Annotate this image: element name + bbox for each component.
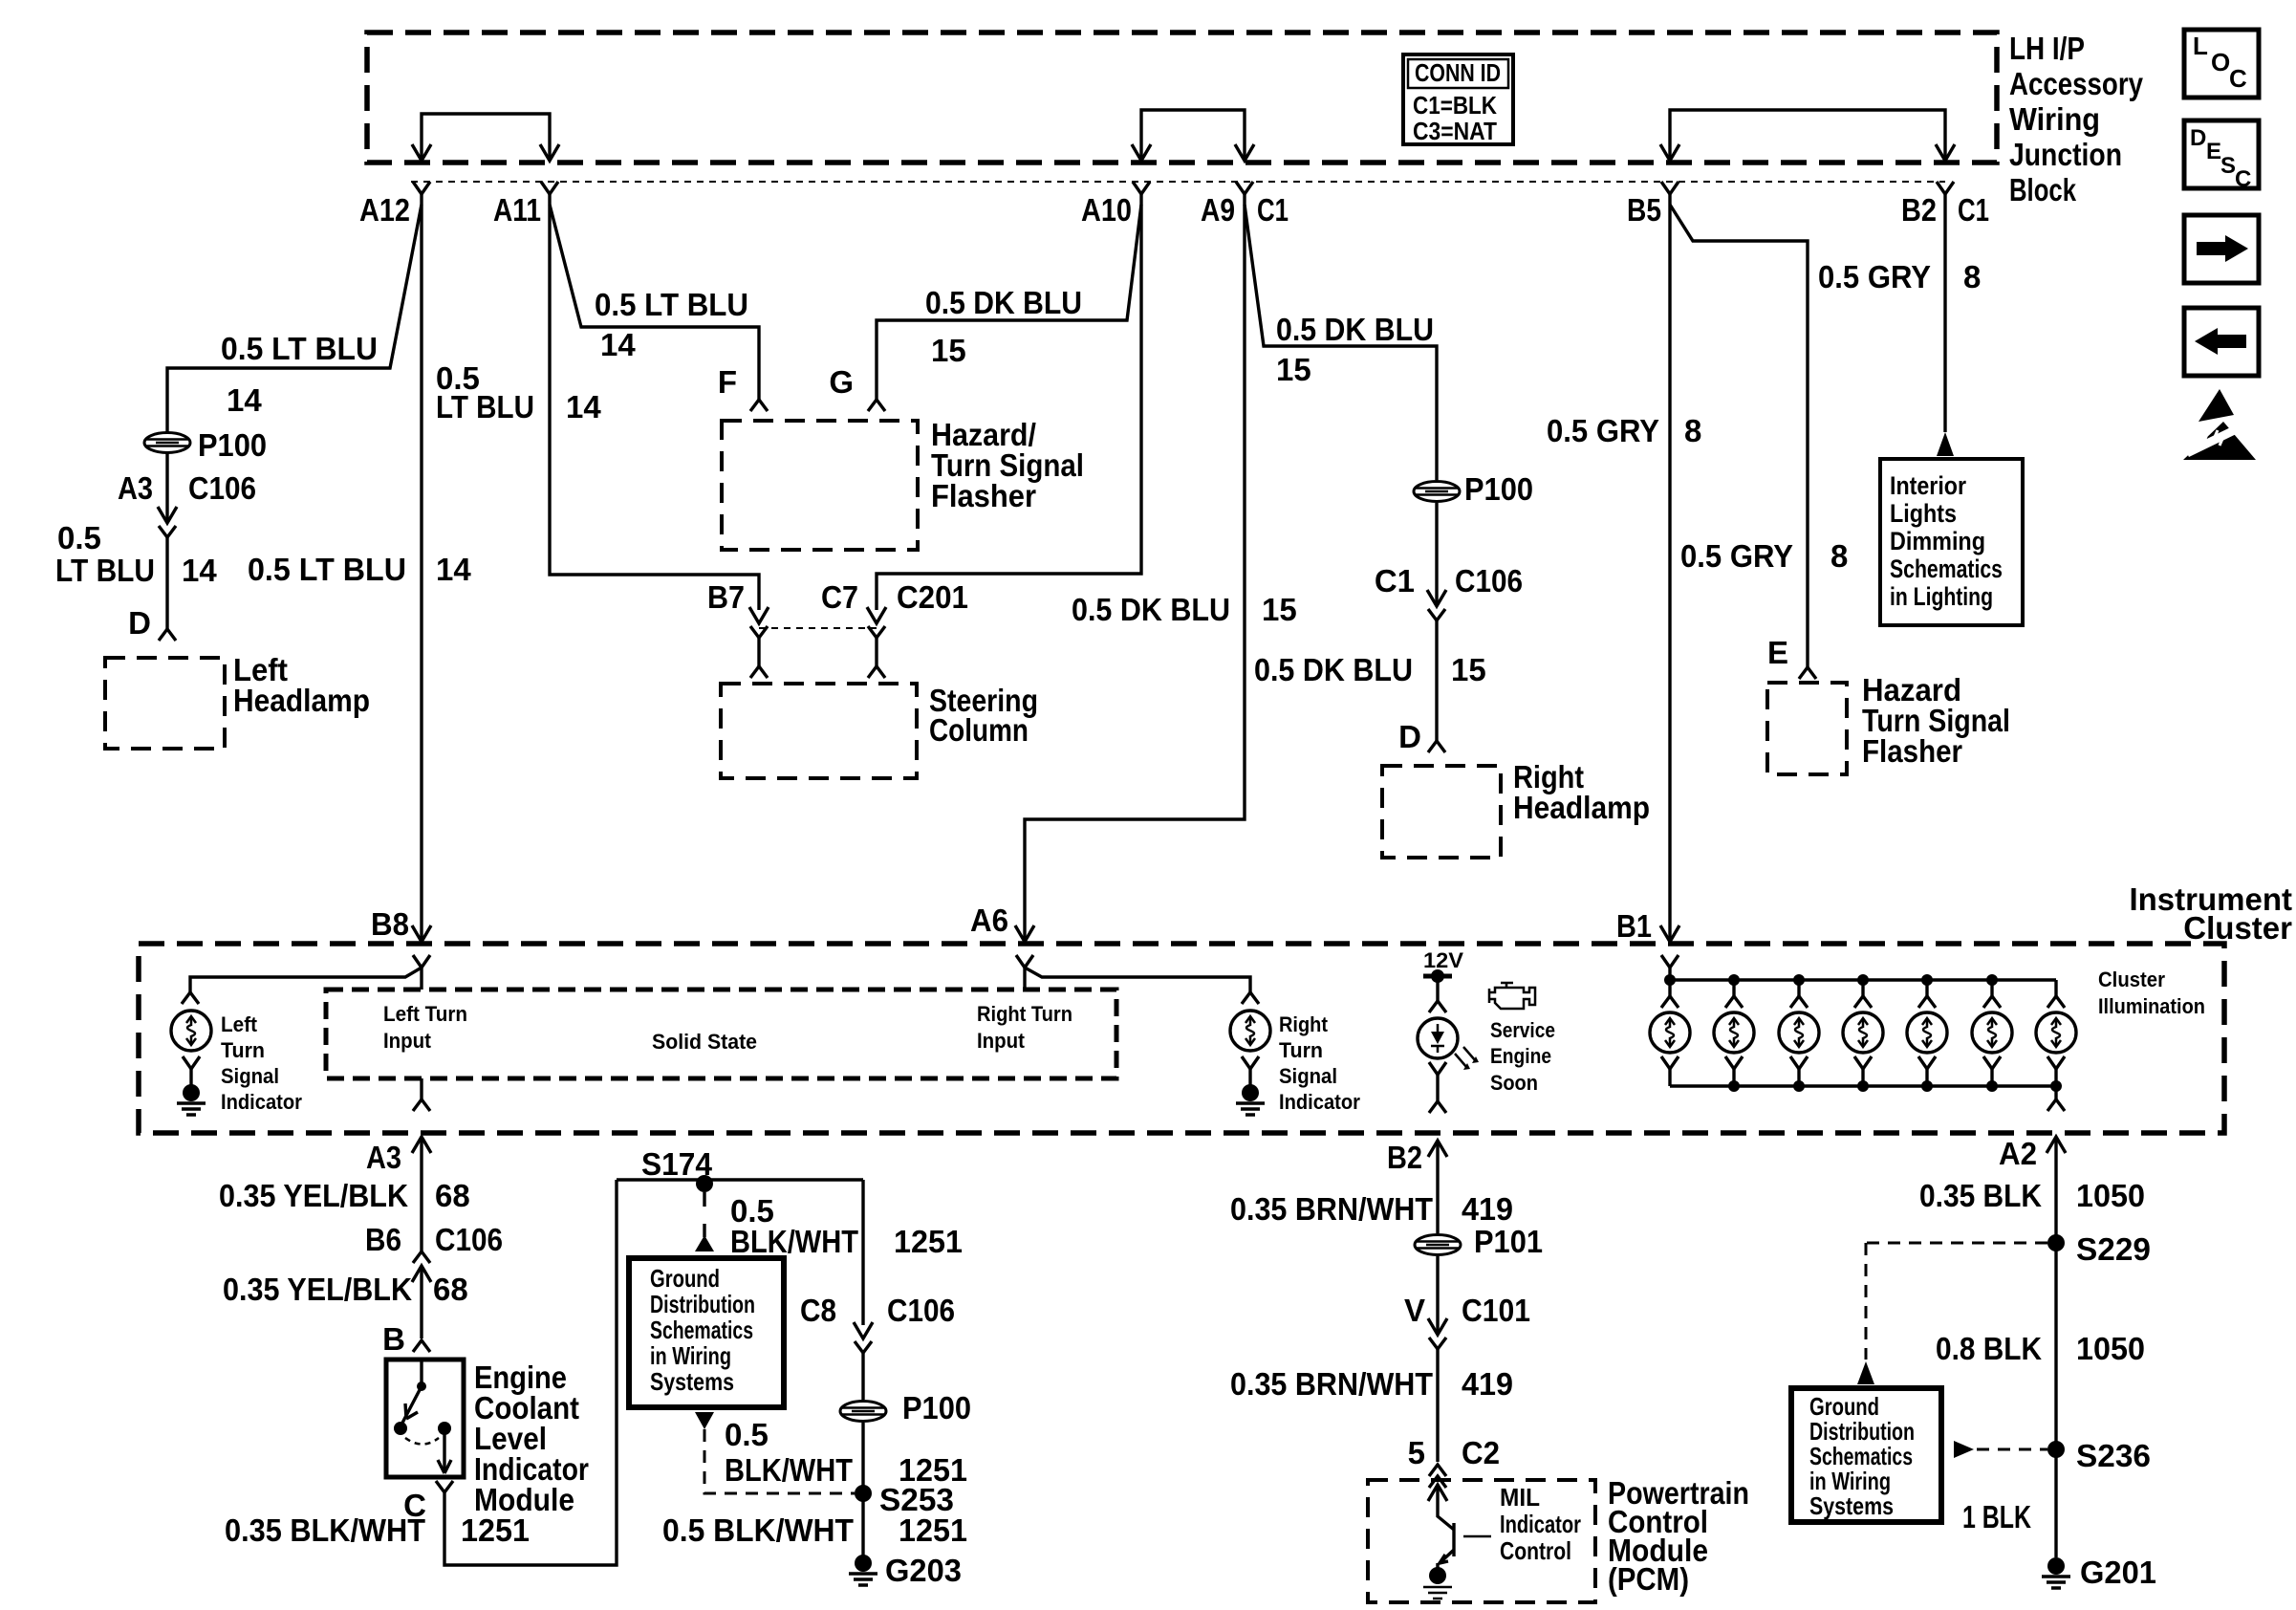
svg-text:C2: C2 (1462, 1435, 1500, 1470)
svg-text:1251: 1251 (894, 1224, 963, 1259)
svg-text:0.35 BRN/WHT: 0.35 BRN/WHT (1230, 1191, 1433, 1227)
svg-text:in Lighting: in Lighting (1890, 582, 1993, 611)
svg-text:O: O (2211, 48, 2230, 76)
svg-text:1 BLK: 1 BLK (1962, 1499, 2031, 1534)
svg-text:Dimming: Dimming (1890, 527, 1985, 555)
svg-text:C1: C1 (1257, 192, 1289, 228)
svg-text:14: 14 (566, 389, 601, 424)
svg-text:L: L (2193, 32, 2208, 60)
svg-text:A9: A9 (1201, 192, 1235, 228)
svg-text:Input: Input (977, 1029, 1026, 1053)
svg-text:Wiring: Wiring (2009, 101, 2100, 137)
svg-text:1251: 1251 (899, 1512, 967, 1548)
svg-text:Illumination: Illumination (2098, 994, 2205, 1018)
svg-text:8: 8 (1963, 259, 1981, 294)
svg-text:0.5 LT BLU: 0.5 LT BLU (595, 287, 748, 322)
svg-text:Left Turn: Left Turn (383, 1002, 467, 1026)
svg-text:E: E (1767, 635, 1788, 670)
svg-text:Right: Right (1279, 1012, 1329, 1036)
svg-text:Turn: Turn (221, 1038, 265, 1062)
svg-text:Right Turn: Right Turn (977, 1002, 1072, 1026)
svg-text:8: 8 (1830, 538, 1848, 574)
svg-text:C7: C7 (821, 579, 858, 615)
svg-text:Solid State: Solid State (652, 1030, 757, 1054)
svg-text:0.5 LT BLU: 0.5 LT BLU (221, 331, 378, 366)
svg-text:0.5 DK BLU: 0.5 DK BLU (1254, 652, 1413, 687)
svg-text:C: C (2235, 166, 2251, 192)
svg-text:1050: 1050 (2076, 1331, 2145, 1366)
svg-text:0.35 YEL/BLK: 0.35 YEL/BLK (223, 1272, 412, 1307)
svg-text:G: G (829, 364, 854, 400)
svg-text:15: 15 (1262, 592, 1297, 627)
svg-text:Indicator: Indicator (1500, 1510, 1581, 1538)
svg-text:BLK/WHT: BLK/WHT (730, 1224, 858, 1259)
svg-text:68: 68 (435, 1178, 470, 1213)
svg-text:P101: P101 (1474, 1224, 1543, 1259)
svg-text:Schematics: Schematics (650, 1316, 753, 1344)
svg-text:LT BLU: LT BLU (55, 553, 155, 588)
svg-text:0.35 BLK: 0.35 BLK (1919, 1178, 2042, 1213)
svg-text:1251: 1251 (461, 1512, 530, 1548)
svg-text:419: 419 (1462, 1366, 1513, 1402)
svg-text:C8: C8 (800, 1293, 836, 1328)
svg-text:0.5 DK BLU: 0.5 DK BLU (1276, 312, 1434, 347)
svg-text:Systems: Systems (650, 1367, 734, 1396)
svg-text:S229: S229 (2076, 1231, 2151, 1267)
svg-text:0.5: 0.5 (725, 1417, 769, 1452)
svg-text:C3=NAT: C3=NAT (1413, 117, 1497, 145)
svg-text:14: 14 (182, 553, 217, 588)
svg-text:Systems: Systems (1809, 1491, 1894, 1520)
svg-text:Flasher: Flasher (931, 478, 1036, 513)
svg-text:0.35 YEL/BLK: 0.35 YEL/BLK (219, 1178, 408, 1213)
svg-text:14: 14 (600, 327, 636, 362)
svg-text:Left: Left (221, 1012, 258, 1036)
svg-text:F: F (718, 364, 737, 400)
svg-text:P100: P100 (1464, 471, 1533, 507)
svg-text:Soon: Soon (1490, 1071, 1538, 1095)
svg-text:MIL: MIL (1500, 1483, 1540, 1512)
svg-text:D: D (128, 605, 151, 641)
svg-text:Engine: Engine (1490, 1044, 1551, 1068)
svg-text:Interior: Interior (1890, 471, 1966, 500)
svg-text:Junction: Junction (2009, 137, 2122, 172)
svg-text:B1: B1 (1616, 908, 1652, 944)
svg-text:Headlamp: Headlamp (233, 683, 370, 718)
svg-text:0.8 BLK: 0.8 BLK (1936, 1331, 2042, 1366)
svg-text:B8: B8 (371, 906, 409, 942)
svg-text:BLK/WHT: BLK/WHT (725, 1452, 853, 1488)
svg-text:C1: C1 (1958, 192, 1989, 228)
svg-text:B2: B2 (1387, 1140, 1422, 1175)
svg-text:0.5 GRY: 0.5 GRY (1818, 259, 1931, 294)
svg-text:15: 15 (1451, 652, 1486, 687)
svg-text:Schematics: Schematics (1890, 555, 2003, 583)
svg-text:P100: P100 (198, 427, 267, 463)
svg-text:G203: G203 (885, 1553, 962, 1588)
svg-text:C: C (2229, 64, 2247, 93)
svg-text:Control: Control (1500, 1536, 1571, 1565)
svg-text:0.5 DK BLU: 0.5 DK BLU (925, 285, 1082, 320)
svg-text:B: B (382, 1321, 405, 1357)
svg-text:C101: C101 (1462, 1293, 1530, 1328)
svg-text:Accessory: Accessory (2009, 66, 2144, 101)
svg-text:1050: 1050 (2076, 1178, 2145, 1213)
svg-text:Ground: Ground (650, 1264, 720, 1293)
svg-text:Cluster: Cluster (2183, 910, 2292, 946)
svg-text:G201: G201 (2080, 1555, 2156, 1590)
svg-text:0.5 GRY: 0.5 GRY (1547, 413, 1659, 448)
svg-text:D: D (2190, 125, 2206, 151)
svg-text:Headlamp: Headlamp (1513, 790, 1650, 825)
svg-text:Indicator: Indicator (1279, 1090, 1360, 1114)
svg-text:15: 15 (1276, 352, 1311, 387)
svg-text:P100: P100 (902, 1390, 971, 1425)
svg-text:A3: A3 (366, 1140, 401, 1175)
svg-text:Signal: Signal (1279, 1064, 1337, 1088)
svg-text:in Wiring: in Wiring (650, 1341, 731, 1370)
svg-text:B2: B2 (1901, 192, 1937, 228)
svg-text:14: 14 (227, 382, 262, 418)
svg-text:0.5 GRY: 0.5 GRY (1680, 538, 1793, 574)
svg-text:Block: Block (2009, 172, 2076, 207)
svg-text:(PCM): (PCM) (1608, 1561, 1689, 1597)
svg-text:B6: B6 (365, 1222, 401, 1257)
svg-text:Signal: Signal (221, 1064, 279, 1088)
svg-text:LT BLU: LT BLU (436, 389, 534, 424)
svg-text:0.5 BLK/WHT: 0.5 BLK/WHT (662, 1512, 854, 1548)
svg-text:0.5: 0.5 (57, 520, 101, 555)
svg-text:0.5 DK BLU: 0.5 DK BLU (1072, 592, 1230, 627)
svg-text:Turn: Turn (1279, 1038, 1323, 1062)
svg-text:8: 8 (1684, 413, 1701, 448)
svg-text:B5: B5 (1627, 192, 1661, 228)
svg-text:LH I/P: LH I/P (2009, 31, 2085, 66)
svg-text:S236: S236 (2076, 1438, 2151, 1473)
svg-text:S: S (2220, 153, 2236, 179)
svg-text:0.5 LT BLU: 0.5 LT BLU (248, 552, 406, 587)
svg-text:Column: Column (929, 712, 1029, 748)
svg-text:C1: C1 (1375, 563, 1415, 598)
svg-text:D: D (1398, 719, 1421, 754)
svg-text:C1=BLK: C1=BLK (1413, 91, 1497, 120)
svg-text:B7: B7 (707, 579, 745, 615)
svg-text:CONN ID: CONN ID (1415, 58, 1501, 87)
svg-text:C106: C106 (435, 1222, 503, 1257)
svg-text:A6: A6 (970, 903, 1008, 938)
svg-text:A12: A12 (359, 192, 410, 228)
svg-text:A10: A10 (1081, 192, 1132, 228)
svg-text:E: E (2206, 139, 2221, 164)
svg-text:12V: 12V (1423, 948, 1463, 972)
svg-text:C106: C106 (188, 470, 256, 506)
svg-text:Indicator: Indicator (221, 1090, 302, 1114)
svg-text:68: 68 (433, 1272, 468, 1307)
svg-text:0.35 BRN/WHT: 0.35 BRN/WHT (1230, 1366, 1433, 1402)
svg-text:5: 5 (1408, 1435, 1425, 1470)
svg-text:Lights: Lights (1890, 499, 1957, 528)
svg-text:C201: C201 (897, 579, 968, 615)
svg-text:A2: A2 (1999, 1136, 2037, 1171)
svg-text:A11: A11 (493, 192, 541, 228)
svg-text:Input: Input (383, 1029, 432, 1053)
svg-text:A3: A3 (118, 470, 153, 506)
svg-text:V: V (1404, 1293, 1425, 1328)
svg-text:14: 14 (436, 552, 471, 587)
svg-text:Flasher: Flasher (1862, 733, 1962, 769)
svg-text:419: 419 (1462, 1191, 1513, 1227)
svg-text:Distribution: Distribution (650, 1290, 755, 1318)
svg-text:C106: C106 (1455, 563, 1523, 598)
svg-text:15: 15 (931, 333, 966, 368)
svg-text:Service: Service (1490, 1018, 1555, 1042)
svg-text:0.35 BLK/WHT: 0.35 BLK/WHT (225, 1512, 425, 1548)
svg-text:Cluster: Cluster (2098, 968, 2165, 991)
svg-text:C106: C106 (887, 1293, 955, 1328)
